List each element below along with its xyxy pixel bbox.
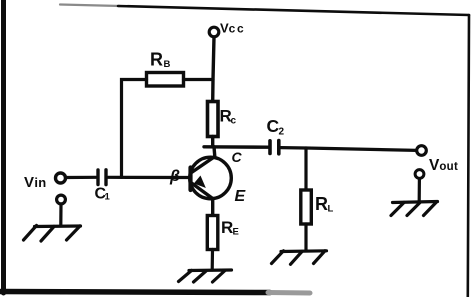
- wire Vcc to RC: [213, 37, 214, 102]
- svg-text:R: R: [221, 218, 233, 237]
- wire RB right to Vcc rail: [184, 78, 214, 81]
- wire Vin to C1: [66, 176, 96, 179]
- terminal Vin ground: [57, 195, 66, 204]
- ground below RL: [272, 251, 327, 264]
- svg-text:E: E: [235, 188, 247, 205]
- wire RC bottom to collector node: [211, 137, 214, 147]
- wire Vin ground terminal down: [59, 205, 62, 226]
- wire Vout ground terminal down: [418, 179, 421, 201]
- terminal Vin: [56, 173, 66, 183]
- svg-text:2: 2: [279, 127, 285, 138]
- svg-text:Vcc: Vcc: [220, 21, 245, 36]
- label RC: [220, 107, 237, 127]
- capacitor C2: [270, 141, 279, 154]
- svg-text:R: R: [150, 50, 163, 70]
- label C collector: [232, 149, 243, 165]
- label Vin: [24, 174, 46, 191]
- terminal Vcc: [209, 27, 219, 37]
- label Vout: [429, 157, 458, 174]
- wire collector node to C2: [204, 145, 268, 149]
- label RE: [221, 218, 239, 238]
- wire C2 to Vout: [281, 148, 417, 151]
- resistor RL: [301, 190, 312, 224]
- svg-text:E: E: [233, 227, 239, 238]
- label C2: [267, 116, 285, 138]
- svg-text:c: c: [231, 116, 237, 127]
- terminal Vout ground: [415, 170, 424, 179]
- wire emitter to RE: [211, 199, 214, 216]
- wire RL to ground: [304, 224, 307, 251]
- svg-text:Vin: Vin: [24, 174, 46, 191]
- svg-text:L: L: [328, 204, 334, 215]
- wire output node down to RL: [304, 148, 307, 190]
- ground below Vin: [24, 226, 81, 242]
- label C1: [95, 186, 111, 203]
- terminal Vout: [417, 146, 427, 156]
- resistor RB: [147, 73, 184, 87]
- wire RE to ground: [211, 250, 215, 271]
- label RB: [150, 50, 171, 71]
- resistor RC: [208, 102, 219, 137]
- transistor Q1: [190, 147, 232, 199]
- label RL: [315, 194, 334, 215]
- svg-text:R: R: [315, 194, 328, 214]
- label Vcc: [220, 21, 245, 36]
- ground below RE: [179, 270, 232, 282]
- wire RB left down to base node: [122, 80, 147, 178]
- svg-text:C: C: [232, 149, 243, 165]
- capacitor C1: [98, 170, 106, 185]
- label E emitter: [235, 188, 247, 205]
- resistor RE: [207, 216, 218, 250]
- wire C1 to base: [108, 176, 190, 179]
- svg-text:β: β: [169, 168, 180, 185]
- svg-text:B: B: [164, 59, 171, 70]
- ground below Vout: [391, 202, 438, 216]
- label B base: [169, 168, 180, 185]
- svg-text:1: 1: [105, 192, 111, 203]
